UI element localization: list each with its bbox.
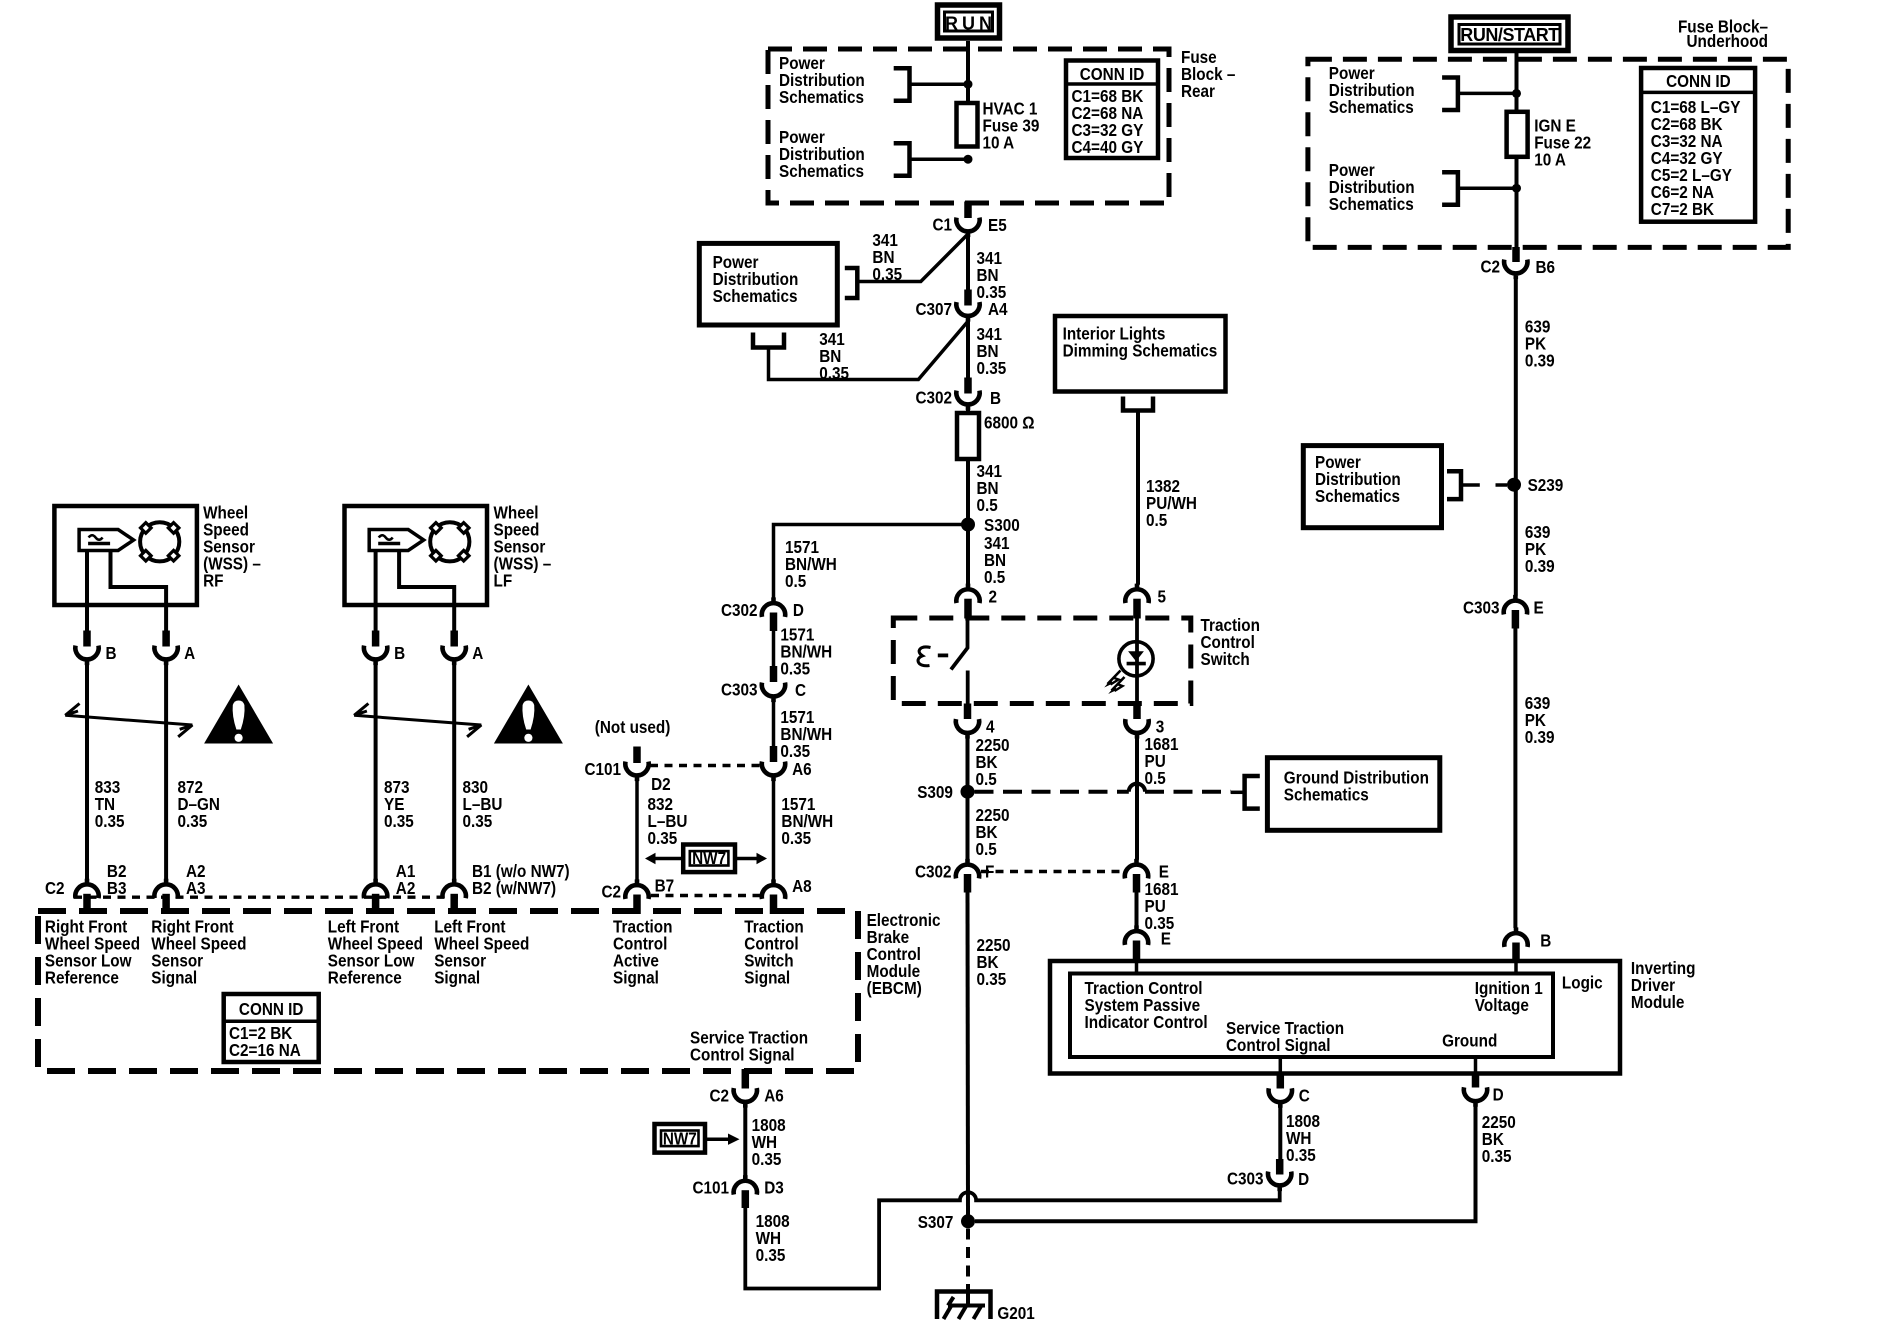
wire E pin into logic (1135, 961, 1139, 974)
wire bracket S239 dashed (1461, 483, 1507, 487)
stub above C302-B (964, 378, 972, 394)
fuse IGN E Fuse 22 10A (1507, 112, 1528, 157)
wire label 833 TN 0.35 (95, 777, 125, 831)
svg-text:B2 (w/NW7): B2 (w/NW7) (472, 878, 556, 898)
svg-text:C302: C302 (915, 862, 952, 882)
resistor 6800 ohm (957, 413, 979, 459)
stub above C101 (633, 747, 641, 764)
fuse block rear dashed box (768, 49, 1169, 203)
svg-text:C101: C101 (692, 1177, 729, 1197)
svg-text:(EBCM): (EBCM) (867, 978, 922, 998)
wire RUN/START to fuse (1515, 49, 1519, 113)
connector C303/E (1463, 595, 1544, 618)
svg-text:0.5: 0.5 (785, 571, 806, 591)
svg-text:0.5: 0.5 (1145, 768, 1166, 788)
svg-text:10 A: 10 A (1534, 149, 1566, 169)
stub above D module (1472, 1072, 1480, 1088)
wire bracket to C307 diagonal (769, 321, 969, 379)
svg-text:0.39: 0.39 (1525, 727, 1555, 747)
bracket underhood 2 (1442, 172, 1458, 205)
svg-text:0.35: 0.35 (1482, 1146, 1512, 1166)
svg-text:5: 5 (1158, 586, 1167, 606)
svg-text:A: A (184, 643, 195, 663)
svg-text:Module: Module (1631, 992, 1684, 1012)
inverting driver module logic box (1070, 974, 1553, 1058)
conn id table underhood (1641, 68, 1755, 222)
svg-text:C303: C303 (721, 680, 758, 700)
svg-text:G201: G201 (997, 1303, 1034, 1323)
svg-text:Schematics: Schematics (1315, 486, 1400, 506)
LED indicator (1119, 642, 1153, 676)
warning triangle RF (204, 685, 273, 744)
label power distribution right (1315, 452, 1401, 506)
label G201 (997, 1303, 1034, 1323)
wire label 872 D-GN 0.35 (178, 777, 220, 831)
label ground pin (1442, 1030, 1497, 1050)
svg-text:Control Signal: Control Signal (1226, 1035, 1330, 1055)
svg-text:0.35: 0.35 (756, 1245, 786, 1265)
svg-text:A8: A8 (792, 876, 812, 896)
svg-text:Switch: Switch (1201, 649, 1250, 669)
stub above pin 3 (1133, 704, 1141, 720)
connector C302/D (721, 597, 804, 620)
svg-text:Ground: Ground (1442, 1030, 1497, 1050)
svg-text:B: B (394, 643, 405, 663)
label power distribution underhood 2 (1329, 160, 1415, 214)
wire S300 to switch pin 2 (966, 529, 970, 585)
svg-text:0.35: 0.35 (781, 828, 811, 848)
svg-text:Signal: Signal (613, 967, 659, 987)
wire pin4 to C302-F (966, 738, 970, 860)
svg-text:C7=2 BK: C7=2 BK (1651, 199, 1714, 219)
wire label 639 PK 0.39 c (1525, 693, 1555, 747)
pin label B1 B2 NW7 (472, 861, 570, 898)
wire label 341 BN 0.35 left2 (819, 329, 849, 383)
bracket to power distribution 2 (894, 143, 910, 176)
svg-text:0.35: 0.35 (780, 658, 810, 678)
wire label 1681 PU 0.5 (1145, 734, 1179, 788)
svg-text:CONN ID: CONN ID (1080, 64, 1145, 84)
wire C module to C303-D (1278, 1108, 1282, 1162)
label inverting driver module (1631, 958, 1696, 1012)
svg-text:0.39: 0.39 (1525, 556, 1555, 576)
wire resistor to S300 (966, 459, 970, 520)
svg-text:C4=40 GY: C4=40 GY (1072, 137, 1144, 157)
label wheel speed sensor LF (494, 502, 552, 590)
pin desc right front signal (151, 916, 246, 987)
bracket underhood 1 (1442, 78, 1458, 111)
cut mark LF wires (354, 704, 481, 737)
svg-text:Indicator Control: Indicator Control (1085, 1012, 1208, 1032)
wire label 341 BN 0.35 right1 (977, 248, 1007, 302)
wire label 2250 BK 0.5 a (976, 735, 1010, 789)
LED light arrows (1104, 671, 1124, 695)
wire RUN to fuse (966, 41, 970, 104)
label power distribution underhood 1 (1329, 63, 1415, 117)
junction dot u2 (1512, 184, 1521, 193)
wire label 1808 WH 0.35 a (752, 1115, 786, 1169)
svg-text:Schematics: Schematics (779, 87, 864, 107)
svg-text:0.5: 0.5 (976, 769, 997, 789)
wire label 639 PK 0.39 b (1525, 522, 1555, 576)
connector C1/E5 (932, 214, 1006, 237)
connectors B/A sensor LF (364, 631, 483, 880)
conn id table EBCM (224, 994, 319, 1062)
wire label 830 L-BU 0.35 (463, 777, 503, 831)
switch actuator dash (938, 654, 948, 658)
fuse block underhood dashed box (1308, 59, 1788, 247)
dotted line F to E (981, 870, 1122, 873)
label (Not used) (595, 717, 671, 737)
wheel speed sensor LF box (345, 506, 488, 633)
svg-text:Signal: Signal (434, 967, 480, 987)
svg-text:C101: C101 (584, 759, 621, 779)
pin desc traction control active (613, 916, 672, 987)
wire bracket underhood 1 (1458, 92, 1513, 96)
dotted line EBCM C2 row (74, 896, 458, 899)
svg-text:B: B (106, 643, 117, 663)
wire D3 to C303-D with hop (745, 1191, 1279, 1289)
stub below E module (1133, 941, 1141, 963)
svg-text:Schematics: Schematics (1284, 784, 1369, 804)
switch blade (951, 648, 968, 670)
pin desc left front low ref (328, 916, 423, 987)
svg-text:C2: C2 (45, 878, 65, 898)
svg-text:B6: B6 (1536, 257, 1556, 277)
stub below A8 (770, 895, 778, 915)
dashed wire S309 to ground distribution (975, 784, 1232, 792)
svg-text:NW7: NW7 (663, 1128, 697, 1148)
wire S300 branch left (774, 525, 969, 599)
svg-text:A3: A3 (186, 878, 206, 898)
wire C1 to C307 (966, 237, 970, 293)
svg-text:C: C (1299, 1085, 1310, 1105)
svg-text:E: E (1534, 597, 1544, 617)
wire label 341 BN 0.35 right2 (977, 324, 1007, 378)
connector C101/D3 (692, 1175, 783, 1198)
pin desc traction control switch (744, 916, 803, 987)
stub below pin 5 (1133, 599, 1141, 619)
splice S300 (961, 515, 1020, 535)
ground distribution box (1267, 758, 1439, 831)
wire label 1571 BN/WH 0.35 a (780, 624, 832, 678)
label power distribution schematics box (713, 252, 799, 306)
wire C302-B to resistor (966, 410, 970, 414)
stub below pin 2 (964, 599, 972, 619)
svg-text:C: C (795, 680, 806, 700)
svg-text:E: E (1161, 928, 1171, 948)
wire label 341 BN 0.5 upper (977, 461, 1003, 515)
wire label 832 L-BU 0.35 (648, 794, 688, 848)
power feed box RUN/START (1451, 17, 1568, 51)
label wheel speed sensor RF (203, 502, 261, 590)
svg-text:C2=16 NA: C2=16 NA (229, 1040, 301, 1060)
svg-text:0.35: 0.35 (95, 811, 125, 831)
stub above C1 (964, 202, 972, 219)
svg-text:C2: C2 (709, 1085, 729, 1105)
wire E to module (1135, 893, 1139, 927)
svg-text:S307: S307 (918, 1212, 954, 1232)
wire interior lights to pin 5 (1136, 411, 1140, 585)
svg-text:0.35: 0.35 (977, 358, 1007, 378)
connector E row (1125, 859, 1169, 882)
wire label 341 BN 0.5 lower (984, 533, 1010, 587)
dotted line B7 to A8 (651, 894, 760, 897)
connector C307/A4 (915, 299, 1008, 322)
bracket below interior lights box (1123, 397, 1153, 411)
svg-text:A: A (472, 643, 483, 663)
stub below EBCM out (742, 1069, 750, 1089)
svg-text:C307: C307 (915, 299, 952, 319)
bracket S239 (1447, 471, 1461, 499)
junction dot 1 (964, 80, 973, 89)
fuse HVAC 1 Fuse 39 10A (957, 103, 978, 147)
svg-text:D: D (1493, 1084, 1504, 1104)
svg-text:0.35: 0.35 (1286, 1145, 1316, 1165)
stub above C303-C (770, 666, 778, 682)
wire label 1382 PU/WH 0.5 (1146, 476, 1197, 530)
svg-text:S309: S309 (917, 782, 953, 802)
svg-text:CONN ID: CONN ID (1666, 71, 1731, 91)
wire pin3 to E (1135, 738, 1139, 860)
wire diagonal C1 to bracket (857, 234, 968, 282)
stub below D3 (742, 1190, 750, 1208)
svg-text:NW7: NW7 (692, 848, 726, 868)
connector C303/C (721, 680, 806, 703)
svg-text:0.35: 0.35 (384, 811, 414, 831)
label EBCM (867, 910, 941, 998)
bracket ground distribution (1231, 776, 1260, 809)
stub above C303-D (1276, 1159, 1284, 1175)
label power distribution schematics 1 (779, 53, 865, 107)
switch actuator epsilon (918, 647, 930, 666)
wire A6 to C101-D3 (743, 1107, 747, 1176)
connector pin 5 (1125, 584, 1166, 607)
svg-text:2: 2 (989, 586, 998, 606)
svg-text:0.5: 0.5 (984, 567, 1005, 587)
inverting driver module outer box (1050, 961, 1620, 1074)
wire label 2250 BK 0.35 d (1482, 1112, 1516, 1166)
label interior lights dimming (1063, 323, 1218, 360)
label fuse block underhood (1678, 17, 1768, 52)
label traction control system passive (1085, 978, 1208, 1032)
power distribution schematics box (699, 243, 837, 325)
traction control switch dashed box (893, 618, 1191, 704)
svg-text:D: D (1298, 1169, 1309, 1189)
svg-text:D: D (793, 600, 804, 620)
svg-text:0.35: 0.35 (463, 811, 493, 831)
label logic (1562, 972, 1603, 992)
pin desc left front signal (434, 916, 529, 987)
stub above C module (1277, 1072, 1285, 1089)
connector C302/B (915, 388, 1001, 411)
wire F to S307 (966, 893, 971, 1215)
wire label 2250 BK 0.5 b (976, 805, 1010, 859)
svg-text:C2: C2 (601, 881, 621, 901)
svg-text:C302: C302 (915, 388, 952, 408)
LED wire (1135, 618, 1139, 705)
svg-text:Dimming Schematics: Dimming Schematics (1063, 340, 1218, 360)
wheel speed sensor RF box (54, 506, 197, 633)
connector C303/D (1227, 1169, 1309, 1192)
wire label 1571 BN/WH 0.35 b (780, 707, 832, 761)
svg-text:Control Signal: Control Signal (690, 1044, 794, 1064)
connector B module (1504, 927, 1551, 950)
connector pin 3 (1125, 716, 1164, 738)
conn id table rear (1066, 61, 1158, 159)
svg-text:0.5: 0.5 (977, 495, 998, 515)
svg-text:B: B (990, 388, 1001, 408)
connectors into EBCM row (75, 879, 466, 914)
option box NW7 b (655, 1124, 740, 1153)
bracket below box (753, 333, 784, 348)
svg-text:Schematics: Schematics (713, 286, 798, 306)
svg-text:0.39: 0.39 (1525, 351, 1555, 371)
stub below B7 (633, 895, 641, 915)
connector C2/B6 (1480, 257, 1555, 280)
stub above C2-B6 (1512, 247, 1520, 262)
wire C pin out of logic (1279, 1057, 1283, 1074)
junction dot u1 (1512, 89, 1521, 98)
connector D module (1464, 1084, 1504, 1107)
wire bracket2 to bus (910, 157, 965, 161)
junction dot 2 (964, 155, 973, 164)
option box NW7 with arrows (645, 845, 767, 873)
connector C101 not used (584, 759, 670, 794)
svg-text:E5: E5 (988, 215, 1007, 235)
stub below C302-D (770, 613, 778, 632)
splice S309 (917, 782, 974, 802)
connector C module (1269, 1085, 1310, 1108)
wire C307 to C302 (966, 321, 970, 381)
splice S239 (1507, 475, 1563, 495)
wire S239 to C303-E (1514, 485, 1518, 596)
svg-text:0.35: 0.35 (648, 828, 678, 848)
wire D to C303-C (772, 622, 776, 668)
svg-text:A6: A6 (764, 1086, 784, 1106)
stub below F (964, 874, 972, 893)
bracket to power distribution 1 (894, 68, 910, 101)
svg-text:Schematics: Schematics (779, 161, 864, 181)
svg-text:0.35: 0.35 (977, 282, 1007, 302)
svg-text:B: B (1540, 930, 1551, 950)
svg-text:Reference: Reference (45, 967, 119, 987)
connector C302/F (915, 859, 994, 882)
cut mark RF wires (65, 704, 192, 737)
pin desc right front low ref (45, 916, 140, 987)
svg-text:LF: LF (494, 570, 513, 590)
svg-text:CONN ID: CONN ID (239, 999, 304, 1019)
wire bracket underhood 2 (1458, 186, 1513, 190)
label IGN E Fuse 22 10 A (1534, 115, 1591, 169)
svg-text:C302: C302 (721, 600, 758, 620)
svg-text:Logic: Logic (1562, 972, 1603, 992)
wire A6 to A8 (772, 781, 776, 880)
label 6800 ohm (984, 412, 1035, 432)
label ignition 1 voltage (1475, 978, 1543, 1015)
svg-text:RUN: RUN (945, 14, 992, 34)
wire label 1681 PU 0.35 (1145, 879, 1179, 933)
stub above C307 (964, 290, 972, 306)
connector E module (1125, 925, 1171, 948)
connector A6 (762, 759, 812, 781)
pin label A2 A3 (186, 861, 206, 898)
wire label 1571 BN/WH 0.5 (785, 537, 837, 591)
svg-text:RF: RF (203, 570, 223, 590)
wire label 2250 BK 0.35 main (977, 935, 1011, 989)
svg-text:D2: D2 (651, 774, 671, 794)
pin label B2 B3 (107, 861, 127, 898)
svg-text:Underhood: Underhood (1686, 31, 1768, 51)
svg-text:C303: C303 (1463, 597, 1500, 617)
svg-text:Signal: Signal (744, 967, 790, 987)
svg-text:0.5: 0.5 (1146, 510, 1167, 530)
svg-text:0.35: 0.35 (819, 363, 849, 383)
svg-text:C1: C1 (932, 214, 952, 234)
connectors B/A sensor RF (75, 631, 195, 880)
switch wire lower (966, 671, 970, 706)
svg-text:A2: A2 (396, 878, 416, 898)
svg-text:RUN/START: RUN/START (1460, 25, 1559, 45)
label ground distribution schematics (1284, 767, 1429, 804)
svg-text:S239: S239 (1528, 475, 1564, 495)
wire B pin into logic (1514, 961, 1518, 974)
wire fuse to C2-B6 (1515, 157, 1519, 248)
wire label 1808 WH 0.35 b (756, 1211, 790, 1265)
wire label 1571 BN/WH 0.35 c (781, 794, 833, 848)
interior lights dimming box (1055, 316, 1226, 392)
bracket power distribution box right (845, 268, 858, 298)
wire C303-E to module B (1513, 629, 1517, 929)
svg-text:B7: B7 (655, 875, 675, 895)
svg-text:0.35: 0.35 (752, 1149, 782, 1169)
svg-text:B3: B3 (107, 878, 127, 898)
label service traction control signal (690, 1027, 808, 1064)
stub below C303-E (1512, 610, 1520, 629)
stub below B module (1512, 943, 1520, 963)
dotted line C101 to A6 (650, 764, 761, 767)
label power distribution schematics 2 (779, 127, 865, 181)
EBCM dashed box (38, 911, 858, 1071)
svg-text:Voltage: Voltage (1475, 995, 1529, 1015)
wire D pin out of logic (1474, 1057, 1478, 1074)
svg-text:Schematics: Schematics (1329, 194, 1414, 214)
svg-text:Rear: Rear (1181, 81, 1215, 101)
power distribution box right (1303, 446, 1441, 528)
svg-text:C303: C303 (1227, 1169, 1264, 1189)
svg-text:0.5: 0.5 (976, 839, 997, 859)
connector A8 (762, 876, 812, 899)
connector C2/A6 out (709, 1085, 783, 1107)
svg-text:Schematics: Schematics (1329, 97, 1414, 117)
connector pin 4 (956, 716, 995, 738)
warning triangle LF (494, 685, 563, 744)
label fuse block rear (1181, 47, 1235, 101)
wire bracket1 to bus (910, 82, 965, 86)
power feed box RUN (938, 5, 1000, 38)
connector pin 2 (956, 584, 997, 607)
label C2 left (45, 878, 65, 898)
wire label 873 YE 0.35 (384, 777, 414, 831)
svg-text:(Not used): (Not used) (595, 717, 671, 737)
svg-text:6800 Ω: 6800 Ω (984, 412, 1035, 432)
connector C2/B7 (601, 875, 674, 902)
svg-text:C2: C2 (1480, 257, 1500, 277)
wire B6 to S239 (1514, 279, 1518, 480)
svg-text:Signal: Signal (151, 967, 197, 987)
wire C101 to B7 (635, 781, 639, 880)
wire label 341 BN 0.35 left1 (872, 230, 902, 284)
